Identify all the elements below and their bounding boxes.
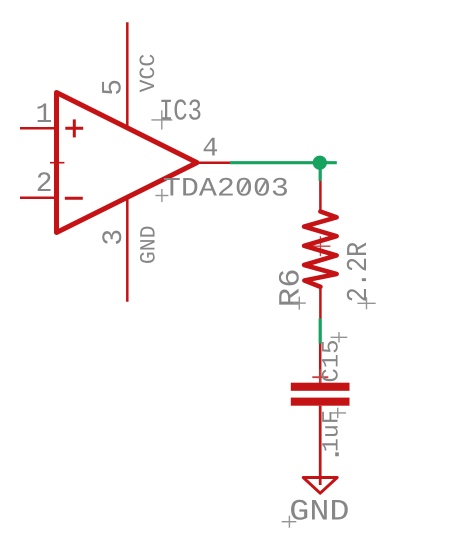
net wire junction stub down — [319, 163, 322, 181]
svg-text:TDA2003: TDA2003 — [163, 174, 289, 204]
op-amp minus mark (inverting input) — [65, 197, 83, 200]
svg-text:2: 2 — [36, 169, 53, 200]
svg-text:1uF: 1uF — [318, 410, 344, 452]
pin 3 wire (GND) — [126, 196, 129, 302]
capacitor C15 bottom plate — [291, 398, 350, 406]
pin 1 wire — [20, 127, 56, 130]
.1uF period glyph — [335, 452, 339, 456]
.1uF origin cross — [329, 408, 346, 418]
svg-text:IC3: IC3 — [159, 96, 202, 130]
slashed zeros of TDA2003 (Eagle vector font style) — [241, 181, 265, 192]
svg-text:GND: GND — [289, 494, 349, 528]
capacitor C15 top lead — [319, 344, 322, 384]
net wire from pin4 to junction (green) — [230, 161, 337, 164]
resistor R6 top lead — [319, 181, 322, 213]
svg-text:1: 1 — [36, 100, 53, 131]
svg-text:3: 3 — [99, 229, 130, 246]
op-amp origin cross — [50, 156, 64, 170]
IC3 name origin cross — [151, 110, 172, 129]
capacitor C15 origin cross — [312, 369, 328, 385]
GND symbol arrow — [303, 478, 337, 494]
svg-text:2.2R: 2.2R — [342, 242, 375, 303]
op-amp IC3 triangle body — [57, 93, 198, 233]
resistor R6 origin cross — [310, 236, 330, 256]
R6 name origin cross — [293, 297, 306, 310]
svg-text:GND: GND — [136, 225, 161, 264]
net wire resistor to capacitor (green) — [319, 319, 322, 344]
resistor R6 bottom lead — [319, 287, 322, 319]
resistor R6 zigzag — [304, 212, 337, 287]
svg-text:C15: C15 — [319, 339, 346, 382]
pin 2 wire — [20, 197, 56, 200]
capacitor C15 bottom lead — [319, 406, 322, 485]
GND label origin cross — [282, 516, 297, 528]
svg-text:5: 5 — [99, 79, 130, 96]
svg-text:R6: R6 — [274, 268, 307, 307]
C15 origin cross — [331, 332, 348, 342]
pin 4 output wire (red) — [196, 161, 230, 164]
2.2R origin cross — [357, 297, 375, 309]
svg-text:4: 4 — [202, 135, 218, 165]
svg-text:VCC: VCC — [136, 54, 161, 93]
capacitor C15 top plate — [291, 383, 350, 391]
op-amp plus mark (non-inverting input) — [65, 119, 83, 137]
TDA2003 origin cross — [155, 189, 168, 202]
pin 5 wire (VCC) — [126, 22, 129, 129]
junction dot — [313, 156, 327, 170]
